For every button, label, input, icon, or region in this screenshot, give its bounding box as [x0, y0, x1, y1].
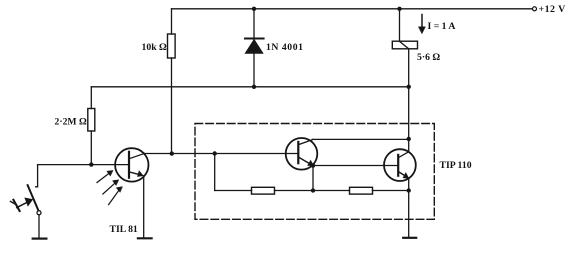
switch S1 contact (open circle) — [37, 211, 41, 215]
wire: collector rail (5.6 bottom to Q3 collector) — [408, 87, 410, 152]
resistor R4 (darlington internal, left) — [252, 187, 275, 194]
wire: Q2 emitter to Q3 base — [313, 165, 398, 167]
wire: Q3 emitter short lead — [408, 178, 410, 190]
wire: input node to Q2 base — [215, 153, 299, 155]
transistor Q3 collector stroke — [399, 152, 409, 158]
wire: bottom bus middle segment — [275, 190, 350, 192]
light arrow 3 — [109, 190, 120, 205]
diode D1 cathode bar — [245, 38, 264, 40]
wire: emitter down to ground — [143, 176, 145, 238]
resistor R2 5.6 ohm: bottom lead — [408, 49, 410, 87]
diode D1 anode triangle — [245, 40, 263, 54]
light arrow 1 — [97, 173, 110, 183]
phototransistor Q1 collector stroke — [130, 153, 145, 158]
wire: input node down to bottom resistor bus — [214, 154, 216, 191]
resistor R2 5.6 ohm: body (rectangle) — [392, 41, 417, 49]
node: collector rail junction — [407, 137, 411, 141]
resistor R3 2.2M: body — [88, 109, 95, 132]
phototransistor Q1 base bar — [128, 152, 130, 178]
phototransistor Q1 emitter arrowhead — [138, 171, 144, 177]
transistor Q2 emitter stroke — [299, 157, 310, 164]
svg-text:TIP 110: TIP 110 — [440, 160, 472, 171]
resistor R2 5.6 ohm: top lead — [399, 9, 401, 41]
svg-text:2·2M Ω: 2·2M Ω — [55, 117, 87, 128]
switch S1 push actuator shaft — [17, 202, 29, 208]
svg-text:10k Ω: 10k Ω — [142, 42, 167, 53]
current arrow I = 1 A — [421, 15, 423, 28]
svg-text:5·6 Ω: 5·6 Ω — [417, 52, 440, 63]
transistor Q2 (darlington input): body circle — [286, 138, 318, 170]
dashed package outline TIP 110 — [195, 124, 434, 220]
ground (below TIL 81) — [138, 237, 152, 239]
wire: mid horizontal bus (2.2M top / diode bottom / 5.6 bottom) — [91, 86, 408, 88]
resistor R1 10k: bottom lead down to node A — [171, 58, 173, 154]
resistor R1 10k: body — [168, 34, 176, 58]
terminal +12V (open circle) — [533, 7, 537, 11]
wire: switch bottom lead — [38, 215, 40, 239]
wire: bottom bus left segment — [215, 190, 252, 192]
wire: +12V top supply rail — [172, 8, 533, 10]
transistor Q3 emitter stroke — [399, 172, 406, 176]
transistor Q2 emitter arrowhead — [308, 160, 314, 165]
phototransistor Q1 TIL 81: body circle — [115, 148, 148, 181]
resistor R3 2.2M: top lead — [90, 87, 92, 109]
node: bottom bus middle — [311, 188, 315, 192]
transistor Q3 (darlington output): body circle — [384, 149, 416, 181]
switch S1 push actuator T-bar — [13, 200, 19, 211]
node: 2.2M meets base bus — [89, 162, 93, 166]
resistor R1 10k: top lead — [171, 9, 173, 34]
svg-text:+12 V: +12 V — [539, 4, 567, 15]
ground (below switch) — [33, 238, 47, 240]
wire: Q3 emitter down to ground — [408, 191, 410, 238]
transistor Q3 base bar — [397, 155, 399, 176]
svg-text:1N 4001: 1N 4001 — [266, 42, 304, 53]
wire: bottom bus right segment — [373, 190, 409, 192]
transistor Q2 collector stroke — [299, 140, 313, 145]
resistor R3 2.2M: bottom lead — [90, 131, 92, 165]
node: 5.6 top on +12V rail — [397, 7, 401, 11]
transistor Q2 base bar — [297, 142, 299, 163]
node: mid bus meets rail — [407, 85, 411, 89]
wire: collector to node A — [145, 153, 215, 155]
wire: switch top lead with jog — [36, 165, 38, 187]
node: Q2 emitter junction — [311, 163, 315, 167]
switch S1 lever — [28, 185, 39, 211]
svg-text:I = 1 A: I = 1 A — [428, 21, 456, 32]
wire: base bus to phototransistor — [38, 164, 129, 166]
ground (below Q3) — [403, 237, 416, 239]
node A: 10k meets collector wire — [170, 151, 174, 155]
switch S1 push actuator arrowhead — [25, 198, 33, 206]
node: diode top on +12V rail — [252, 7, 256, 11]
diode D1 1N4001: vertical leads — [253, 9, 255, 87]
wire: Q2 collector to rail — [313, 138, 409, 140]
svg-text:TIL 81: TIL 81 — [110, 224, 138, 235]
resistor R5 (darlington internal, right) — [350, 187, 373, 194]
node: darlington input — [213, 151, 217, 155]
node: Q3 emitter junction — [407, 188, 411, 192]
transistor Q3 emitter arrowhead — [403, 173, 409, 179]
resistor R2 5.6 ohm: internal diagonal — [400, 41, 409, 48]
light arrow 2 — [103, 183, 116, 194]
node: diode bottom on mid bus — [252, 85, 256, 89]
phototransistor Q1 emitter stroke — [130, 172, 140, 175]
wire: Q2 emitter down to bottom bus — [312, 166, 314, 191]
